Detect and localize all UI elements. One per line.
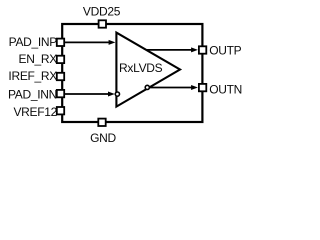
pin IREF_RX <box>57 73 64 80</box>
pin GND <box>98 119 105 126</box>
svg-text:VDD25: VDD25 <box>83 4 121 18</box>
arrowhead OUTP <box>191 47 198 52</box>
pin PAD_INP <box>57 39 64 46</box>
outer block boundary <box>62 24 202 122</box>
wire buffer output to OUTP <box>147 49 192 51</box>
arrowhead OUTN <box>191 85 198 90</box>
pin PAD_INN <box>57 90 64 97</box>
svg-text:OUTP: OUTP <box>209 44 241 58</box>
wire PAD_INP to buffer input <box>65 41 111 43</box>
svg-text:PAD_INP: PAD_INP <box>9 35 58 49</box>
wire buffer inverted output to OUTN <box>148 87 192 89</box>
svg-text:EN_RX: EN_RX <box>18 52 57 66</box>
arrowhead PAD_INP input <box>109 40 116 45</box>
svg-text:RxLVDS: RxLVDS <box>119 61 163 75</box>
svg-text:IREF_RX: IREF_RX <box>8 69 57 83</box>
bubble at inverted output <box>145 85 149 89</box>
svg-text:VREF12: VREF12 <box>13 105 57 119</box>
pin OUTN <box>199 84 206 91</box>
pin EN_RX <box>57 56 64 63</box>
svg-text:OUTN: OUTN <box>209 82 242 96</box>
arrowhead PAD_INN input <box>108 92 115 97</box>
svg-text:PAD_INN: PAD_INN <box>8 88 57 102</box>
pin VREF12 <box>57 107 64 114</box>
pin OUTP <box>199 46 206 53</box>
wire PAD_INN to buffer inverting input <box>65 93 110 95</box>
svg-text:GND: GND <box>90 131 116 145</box>
op-amp U1 (RxLVDS buffer) <box>116 33 180 107</box>
bubble at inverting input <box>115 92 119 96</box>
pin VDD25 <box>99 20 106 27</box>
